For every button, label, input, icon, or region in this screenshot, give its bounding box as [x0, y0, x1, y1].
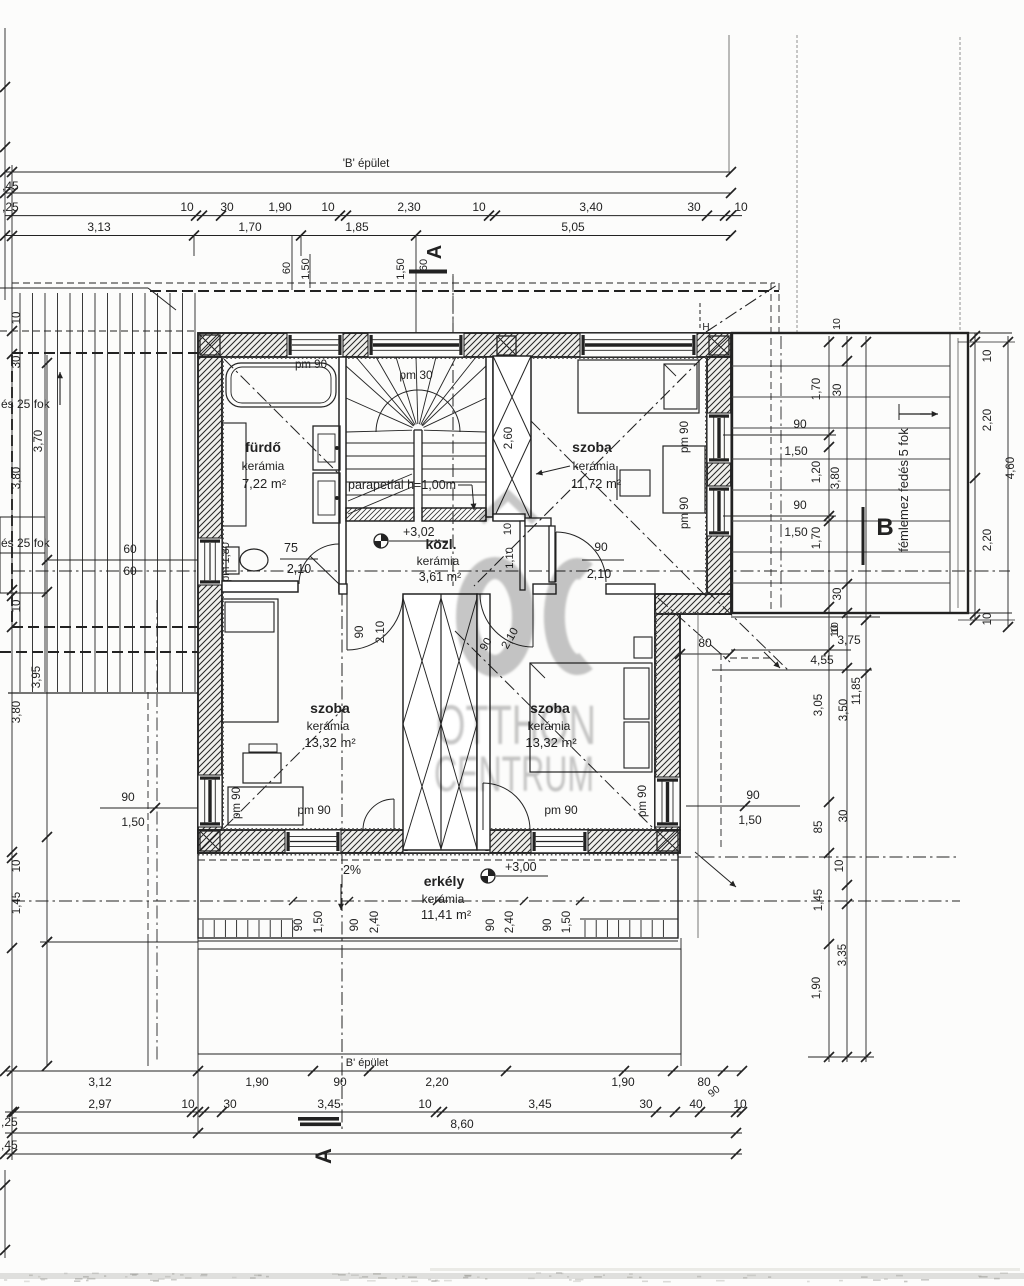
svg-text:és 25 fok: és 25 fok	[1, 397, 51, 411]
outer wall left	[198, 357, 222, 853]
corner columns (X squares)	[200, 335, 220, 355]
balcony door right room	[483, 783, 530, 830]
svg-text:60: 60	[281, 262, 293, 274]
svg-text:1,45: 1,45	[11, 892, 23, 914]
svg-text:1,90: 1,90	[811, 977, 823, 999]
svg-text:85: 85	[813, 821, 825, 834]
svg-text:parapetfal h=1,00m: parapetfal h=1,00m	[348, 478, 456, 492]
window right pm 90 upper	[707, 413, 731, 463]
svg-text:B: B	[876, 514, 893, 541]
door from közl to lower-right szoba	[480, 594, 533, 647]
svg-text:3,70: 3,70	[33, 430, 45, 452]
svg-text:1,50: 1,50	[300, 258, 312, 279]
roof hip diagonal upper-right	[474, 357, 703, 586]
window right pm 90 lower	[707, 486, 731, 536]
window bottom pm 90 left	[285, 830, 341, 853]
counter along left wall	[222, 423, 246, 526]
outer wall step	[655, 594, 731, 614]
svg-text:1,50: 1,50	[738, 813, 762, 827]
flat roof (fémlemez)	[732, 333, 968, 613]
svg-text:2,10: 2,10	[287, 562, 311, 576]
svg-text:3,40: 3,40	[579, 200, 603, 214]
neighbour building stub	[0, 517, 45, 553]
stair cut mark	[348, 474, 412, 501]
svg-text:11,41 m²: 11,41 m²	[421, 907, 472, 922]
section B marker	[862, 507, 865, 565]
svg-text:pm 90: pm 90	[297, 803, 331, 817]
svg-text:1,90: 1,90	[611, 1075, 635, 1089]
svg-text:30: 30	[220, 200, 234, 214]
svg-text:30: 30	[832, 588, 844, 601]
svg-text:3,80: 3,80	[830, 467, 842, 489]
svg-text:90: 90	[542, 919, 554, 932]
svg-text:60: 60	[418, 259, 430, 271]
svg-text:1,50: 1,50	[121, 815, 145, 829]
svg-text:1,20: 1,20	[811, 461, 823, 483]
svg-text:B' épület: B' épület	[346, 1057, 388, 1069]
svg-text:30: 30	[223, 1097, 237, 1111]
balcony axis dash-dot	[12, 900, 960, 902]
bed (lower-left szoba)	[222, 599, 278, 722]
svg-text:11,72 m²: 11,72 m²	[571, 476, 622, 491]
svg-text:+3,00: +3,00	[505, 860, 537, 874]
svg-text:75: 75	[284, 541, 298, 555]
door to upper szoba	[556, 532, 606, 582]
desk + chair	[663, 446, 705, 513]
svg-text:4,60: 4,60	[1005, 457, 1017, 479]
svg-text:pm 90: pm 90	[637, 785, 649, 817]
interior wall: stair east	[486, 357, 493, 517]
svg-text:3,12: 3,12	[88, 1075, 112, 1089]
svg-text:30: 30	[838, 810, 850, 823]
balcony railing posts	[202, 920, 204, 937]
parapet walls at stair bottom	[346, 508, 414, 521]
window left pm 1,80	[198, 538, 222, 585]
svg-text:5,05: 5,05	[561, 220, 585, 234]
outer wall right upper	[707, 357, 731, 614]
window lower-right pm 90	[655, 777, 680, 827]
svg-text:7,22 m²: 7,22 m²	[242, 476, 287, 491]
svg-text:80: 80	[698, 636, 712, 650]
outer wall bottom	[198, 830, 680, 853]
svg-text:3,80: 3,80	[11, 701, 23, 723]
lower shaft between rooms (X-braced)	[403, 594, 477, 850]
toilet	[226, 547, 239, 574]
svg-text:2,10: 2,10	[375, 621, 387, 643]
svg-text:10: 10	[502, 523, 514, 535]
window top (szoba)	[580, 333, 697, 357]
svg-text:fémlemez fedés 5 fok: fémlemez fedés 5 fok	[896, 428, 911, 552]
section axis A vertical lower	[341, 522, 343, 1133]
svg-text:CENTRUM: CENTRUM	[434, 746, 594, 802]
svg-text:1,90: 1,90	[268, 200, 292, 214]
svg-text:30: 30	[832, 384, 844, 397]
svg-text:10: 10	[418, 1097, 432, 1111]
svg-text:és 25 fok: és 25 fok	[1, 536, 51, 550]
window pm30 above stairs	[368, 333, 464, 357]
svg-text:10: 10	[982, 613, 994, 626]
svg-text:1,50: 1,50	[395, 258, 407, 279]
svg-text:10: 10	[982, 350, 994, 363]
svg-text:90: 90	[121, 790, 135, 804]
svg-text:pm 90: pm 90	[544, 803, 578, 817]
balcony door left	[363, 799, 394, 830]
svg-text:2,60: 2,60	[503, 427, 515, 449]
svg-text:10: 10	[733, 1097, 747, 1111]
window bottom pm 90 right	[531, 830, 588, 853]
micro dims above top wall / section A marker	[291, 236, 293, 290]
svg-text:90: 90	[333, 1075, 347, 1089]
svg-text:2,30: 2,30	[397, 200, 421, 214]
svg-text:2,20: 2,20	[982, 529, 994, 551]
window left pm 90	[198, 775, 222, 827]
roof hip lower-left	[224, 707, 345, 828]
svg-text:13,32 m²: 13,32 m²	[304, 735, 356, 750]
watermark Otthon Centrum logo	[0, 0, 1, 1]
double bed (lower-right szoba)	[530, 663, 652, 772]
step corner hip diagonals	[706, 590, 790, 672]
balcony slab	[198, 853, 678, 938]
outer wall top	[198, 333, 731, 357]
svg-text:10: 10	[180, 200, 194, 214]
svg-text:erkély: erkély	[424, 873, 465, 889]
interior wall: stair west	[339, 357, 346, 592]
svg-text:kerámia: kerámia	[573, 459, 616, 473]
right lower dimension chains	[731, 616, 880, 618]
svg-text:1,70: 1,70	[811, 378, 823, 400]
svg-text:30: 30	[639, 1097, 653, 1111]
svg-text:2,20: 2,20	[425, 1075, 449, 1089]
balcony door/window middle	[403, 830, 490, 853]
svg-text:3,13: 3,13	[87, 220, 111, 234]
60 eaves dim	[47, 559, 198, 561]
section A marker bottom	[298, 1117, 339, 1121]
svg-text:1,50: 1,50	[784, 525, 808, 539]
svg-text:1,50: 1,50	[313, 911, 325, 933]
svg-text:3,50: 3,50	[838, 699, 850, 721]
svg-text:1,70: 1,70	[238, 220, 262, 234]
svg-text:10: 10	[829, 622, 841, 634]
svg-text:10: 10	[11, 312, 23, 325]
svg-text:2,40: 2,40	[369, 911, 381, 933]
wall between shaft and right szoba	[477, 594, 490, 850]
svg-text:10: 10	[321, 200, 335, 214]
desk + monitor + table	[249, 744, 277, 752]
left vertical dimension chain	[4, 28, 6, 300]
svg-text:3,05: 3,05	[813, 694, 825, 716]
svg-text:1,45: 1,45	[813, 889, 825, 911]
svg-text:fürdő: fürdő	[245, 439, 281, 455]
roof corner diagonal	[148, 288, 176, 310]
svg-text:10: 10	[472, 200, 486, 214]
svg-text:90: 90	[746, 788, 760, 802]
bathtub	[226, 363, 336, 407]
outer wall right lower	[655, 614, 680, 830]
roof valley lower-right	[455, 631, 656, 831]
fürdő door	[299, 544, 339, 584]
staircase with winders	[413, 430, 415, 509]
svg-text:3,35: 3,35	[837, 944, 849, 966]
door from közl	[347, 594, 403, 650]
nook duct walls below shaft	[493, 514, 525, 521]
svg-text:,25: ,25	[1, 1115, 18, 1129]
svg-text:2,20: 2,20	[982, 409, 994, 431]
svg-text:90: 90	[793, 498, 807, 512]
svg-text:40: 40	[689, 1097, 703, 1111]
washbasin cabinets	[313, 426, 340, 470]
svg-text:10: 10	[181, 1097, 195, 1111]
roof hip over fürdő	[224, 359, 340, 475]
ground floor outline below	[198, 949, 681, 1054]
svg-text:A: A	[311, 1148, 336, 1164]
svg-text:2,40: 2,40	[504, 911, 516, 933]
svg-text:2,10: 2,10	[587, 567, 611, 581]
svg-text:kerámia: kerámia	[422, 892, 465, 906]
svg-text:pm 90: pm 90	[679, 421, 691, 453]
svg-text:90: 90	[349, 919, 361, 932]
right margin dimension chains	[974, 333, 976, 620]
svg-text:30: 30	[687, 200, 701, 214]
bed (upper right szoba)	[578, 360, 699, 413]
section axis B-B horizontal	[12, 570, 1010, 572]
svg-text:szoba: szoba	[572, 439, 612, 455]
svg-text:H: H	[702, 322, 709, 333]
svg-text:1,70: 1,70	[811, 527, 823, 549]
svg-text:kerámia: kerámia	[417, 554, 460, 568]
svg-text:90: 90	[594, 540, 608, 554]
svg-text:90: 90	[293, 919, 305, 932]
svg-text:10: 10	[831, 318, 843, 330]
svg-text:1,50: 1,50	[784, 444, 808, 458]
left roof (over ground floor), slats	[19, 293, 21, 692]
svg-text:pm 90: pm 90	[231, 787, 243, 819]
svg-text:2,97: 2,97	[88, 1097, 112, 1111]
roof hip diagonal upper-right 2	[531, 421, 706, 596]
svg-text:90: 90	[485, 919, 497, 932]
svg-text:60: 60	[123, 542, 137, 556]
section axis A vertical upper	[452, 276, 454, 586]
svg-text:3,61 m²: 3,61 m²	[419, 570, 461, 584]
svg-text:90: 90	[354, 626, 366, 639]
svg-text:1,50: 1,50	[561, 911, 573, 933]
svg-text:2%: 2%	[343, 863, 361, 877]
svg-text:3,45: 3,45	[528, 1097, 552, 1111]
svg-text:kerámia: kerámia	[307, 719, 350, 733]
fürdő south wall	[222, 581, 298, 592]
svg-text:11,85: 11,85	[851, 677, 863, 705]
svg-text:A: A	[424, 245, 446, 259]
közl south wall segments	[339, 584, 347, 594]
svg-text:1,85: 1,85	[345, 220, 369, 234]
svg-text:3,45: 3,45	[317, 1097, 341, 1111]
nightstand	[634, 637, 652, 658]
svg-text:1,90: 1,90	[245, 1075, 269, 1089]
roof slope arrow	[59, 372, 61, 405]
svg-text:8,60: 8,60	[450, 1117, 474, 1131]
svg-text:4,55: 4,55	[810, 653, 834, 667]
svg-text:kerámia: kerámia	[242, 459, 285, 473]
svg-text:90: 90	[793, 417, 807, 431]
svg-text:10: 10	[11, 860, 23, 873]
window pm90 top (fürdő)	[287, 333, 343, 357]
svg-text:10: 10	[734, 200, 748, 214]
svg-text:pm 90: pm 90	[295, 359, 327, 371]
roof outline above (dashed)	[12, 282, 775, 284]
svg-text:közl.: közl.	[425, 536, 456, 552]
svg-text:10: 10	[834, 860, 846, 873]
svg-text:'B' épület: 'B' épület	[343, 158, 390, 170]
shaft next to stairs (X-braced)	[493, 356, 531, 520]
